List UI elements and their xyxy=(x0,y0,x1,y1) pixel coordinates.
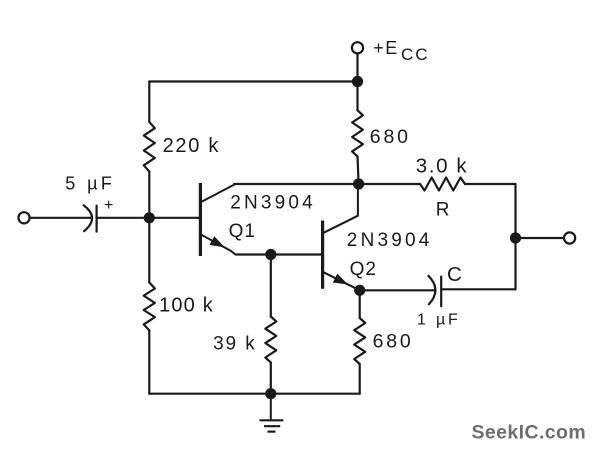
wire C to Q2 emitter node xyxy=(360,289,435,291)
node C junction xyxy=(353,178,364,189)
svg-text:3.0 k: 3.0 k xyxy=(416,155,468,178)
resistor R3 680 xyxy=(352,110,363,156)
resistor R 3.0k xyxy=(420,178,465,191)
input terminal xyxy=(18,212,29,223)
svg-text:+E: +E xyxy=(373,38,399,58)
node F Q2 emitter junction xyxy=(354,285,365,296)
wire node E to 39k xyxy=(270,255,272,317)
resistor R1 220k xyxy=(144,122,155,172)
svg-text:39 k: 39 k xyxy=(213,333,257,354)
svg-text:680: 680 xyxy=(370,126,411,148)
wire 3.0k to right column xyxy=(465,184,516,289)
node B junction xyxy=(352,76,363,87)
wire bottom rail xyxy=(149,393,359,395)
wire node A to Q1 base xyxy=(150,217,199,219)
ground xyxy=(259,394,283,432)
svg-text:CC: CC xyxy=(401,45,430,64)
svg-text:R: R xyxy=(436,200,450,221)
svg-text:C: C xyxy=(447,263,462,286)
wire C1 to node A xyxy=(97,217,148,219)
svg-text:+: + xyxy=(104,197,113,214)
wire right column to C xyxy=(441,288,515,290)
wire Q2 emitter to 680b xyxy=(359,290,361,318)
node E junction xyxy=(265,249,276,260)
wire output tap xyxy=(516,237,564,239)
wire 100k to bottom rail xyxy=(148,330,150,393)
svg-text:Q2: Q2 xyxy=(350,259,377,280)
capacitor C curved plate xyxy=(429,276,436,305)
wire node B to 680a xyxy=(356,82,358,111)
wire 680b to bottom rail xyxy=(359,364,361,394)
capacitor C1 5uF curved plate xyxy=(84,205,92,231)
wire 220k to node A xyxy=(148,172,150,218)
resistor R2 100k xyxy=(144,283,155,331)
wire top-left vertical xyxy=(148,82,150,123)
svg-text:SeekIC.com: SeekIC.com xyxy=(472,422,587,444)
svg-text:680: 680 xyxy=(373,331,414,353)
node G ground junction xyxy=(265,388,276,399)
wire collector rail left xyxy=(234,183,420,185)
svg-text:5 µF: 5 µF xyxy=(65,174,115,194)
wire Ecc to node B xyxy=(356,54,358,82)
wire 680a to collector node xyxy=(358,156,359,184)
wire node A to 100k xyxy=(148,218,150,283)
wire top rail xyxy=(149,80,357,82)
node A junction xyxy=(144,212,155,223)
wire Q1 emitter rail xyxy=(236,253,322,255)
resistor R4 39k xyxy=(265,317,276,363)
svg-text:2N3904: 2N3904 xyxy=(230,193,316,214)
capacitor C1 5uF straight plate xyxy=(95,206,97,232)
resistor R5 680 xyxy=(354,318,365,364)
wire input to C1 xyxy=(30,217,91,219)
terminal +Ecc xyxy=(352,42,363,53)
transistor Q1 2N3904 xyxy=(200,183,235,256)
svg-text:2N3904: 2N3904 xyxy=(347,230,433,251)
svg-text:220 k: 220 k xyxy=(163,135,220,157)
svg-text:100 k: 100 k xyxy=(159,294,214,316)
svg-text:1 µF: 1 µF xyxy=(417,312,461,329)
wire 39k to ground node xyxy=(270,363,272,394)
node D output junction xyxy=(510,232,521,243)
transistor Q2 2N3904 xyxy=(323,184,360,290)
output terminal xyxy=(564,232,575,243)
capacitor C straight plate xyxy=(440,277,442,307)
svg-text:Q1: Q1 xyxy=(229,221,256,242)
